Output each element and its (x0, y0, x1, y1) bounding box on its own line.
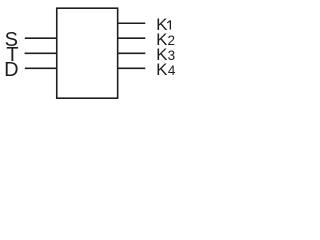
svg-text:2: 2 (168, 33, 176, 48)
wire D (25, 67, 57, 69)
wire K4 (117, 67, 145, 69)
svg-text:D: D (4, 59, 18, 81)
wire K3 (117, 52, 145, 54)
svg-text:K: K (156, 60, 168, 79)
wire S (25, 37, 57, 39)
svg-text:3: 3 (168, 48, 176, 63)
wire K2 (117, 37, 145, 39)
wire T (25, 52, 57, 54)
wire K1 (117, 22, 145, 24)
IC box U1 (57, 8, 118, 98)
svg-text:4: 4 (168, 63, 176, 78)
